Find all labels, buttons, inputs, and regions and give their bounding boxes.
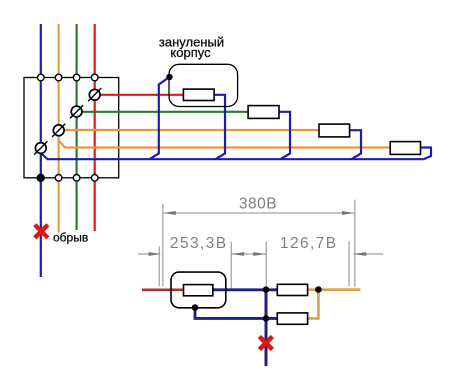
svg-text:корпус: корпус <box>170 45 211 60</box>
svg-text:253,3В: 253,3В <box>170 235 228 252</box>
svg-text:126,7В: 126,7В <box>280 235 338 252</box>
svg-text:обрыв: обрыв <box>53 231 88 245</box>
svg-text:380В: 380В <box>239 195 277 212</box>
